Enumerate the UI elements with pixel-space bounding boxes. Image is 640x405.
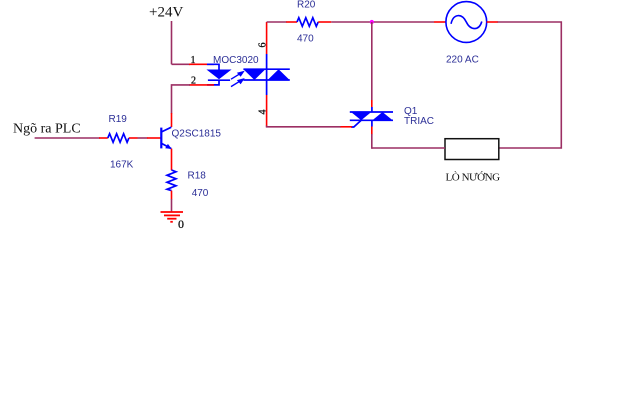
wire R20 to AC source [331, 21, 434, 23]
opto triac right triangle [268, 69, 290, 80]
opto triac center junction [266, 69, 268, 80]
svg-text:470: 470 [192, 188, 209, 199]
svg-text:167K: 167K [110, 160, 134, 171]
opto LED pin 2 stub [207, 80, 219, 85]
wire triac MT1 red segment [371, 127, 373, 135]
wire base red segment [147, 137, 161, 139]
resistor R19 [108, 134, 129, 143]
opto triac top bar [243, 68, 289, 70]
wire R18 bottom red segment [171, 191, 173, 200]
opto LED pin 1 stub [207, 64, 219, 70]
svg-text:470: 470 [297, 34, 314, 45]
opto pin 4 stub [266, 80, 268, 95]
transistor Q2 collector lead [161, 127, 171, 132]
wire pin 4 red segment [266, 95, 268, 127]
svg-text:LÒ NƯỚNG: LÒ NƯỚNG [446, 172, 501, 184]
opto triac left triangle [243, 69, 265, 80]
wire node down to triac [371, 22, 373, 100]
svg-text:R18: R18 [188, 171, 207, 182]
svg-text:4: 4 [258, 110, 269, 115]
transistor Q2 emitter lead [161, 143, 171, 148]
AC source V1 circle [446, 2, 487, 43]
svg-text:Q2SC1815: Q2SC1815 [172, 129, 222, 140]
wire pin 2 red segment [189, 84, 214, 86]
wire gate red segment [340, 126, 352, 128]
wire AC right red segment [487, 21, 498, 23]
wire top rail left [267, 21, 287, 23]
opto LED cathode bar [208, 79, 230, 81]
svg-text:MOC3020: MOC3020 [213, 55, 259, 66]
resistor R18 [167, 170, 176, 191]
svg-text:0: 0 [178, 217, 184, 231]
svg-text:1: 1 [191, 55, 196, 66]
wire R20 left red segment [286, 21, 297, 23]
transistor Q2 emitter arrow [165, 144, 172, 149]
triac Q1 left triangle [351, 112, 371, 120]
svg-text:Ngõ ra PLC: Ngõ ra PLC [13, 122, 81, 137]
opto LED anode triangle [208, 70, 230, 79]
triac Q1 top bar [350, 111, 393, 113]
triac Q1 MT2 pin stub [371, 107, 373, 112]
wire +24V vertical [171, 21, 173, 64]
load resistor LO NUONG box [445, 139, 499, 160]
wire pin 6 red segment [266, 22, 268, 54]
wire pin 2 to collector [172, 85, 191, 114]
triac Q1 right triangle [372, 112, 392, 120]
wire emitter red segment [171, 149, 173, 171]
wire input to R19 [35, 137, 100, 139]
wire AC left red segment [434, 21, 446, 23]
wire +24V to opto pin 1 [172, 63, 191, 65]
svg-text:6: 6 [258, 43, 269, 48]
svg-text:TRIAC: TRIAC [404, 116, 434, 127]
wire triac MT1 to load corner [371, 134, 373, 149]
triac Q1 gate lead [351, 120, 361, 127]
transistor Q2 base bar [160, 128, 162, 149]
resistor R20 [297, 18, 318, 27]
wire triac MT2 red segment [371, 100, 373, 107]
AC source sine wave [451, 16, 482, 29]
triac Q1 bottom bar [350, 119, 393, 121]
wire R19 left red segment [99, 137, 108, 139]
wire gate to opto pin 4 [267, 126, 341, 127]
opto triac bottom bar [243, 79, 289, 81]
junction node dot [370, 20, 374, 24]
opto light arrow 1 [231, 72, 244, 80]
opto light arrow 2 [231, 79, 244, 87]
svg-text:220 AC: 220 AC [446, 55, 479, 66]
svg-text:+24V: +24V [149, 5, 183, 21]
wire R19 right red segment [129, 137, 138, 139]
wire R20 right red segment [318, 21, 331, 23]
wire R19 to base [138, 137, 148, 139]
wire collector red segment [171, 113, 173, 127]
opto pin 6 stub [266, 54, 268, 69]
wire AC to right rail [498, 22, 562, 148]
triac Q1 MT1 pin stub [371, 120, 373, 126]
wire load left to triac [372, 147, 445, 149]
svg-text:R20: R20 [297, 0, 316, 10]
ground symbol [161, 212, 184, 222]
svg-text:R19: R19 [109, 114, 128, 125]
wire R18 to ground [171, 199, 173, 212]
wire pin 1 red segment [189, 63, 214, 65]
